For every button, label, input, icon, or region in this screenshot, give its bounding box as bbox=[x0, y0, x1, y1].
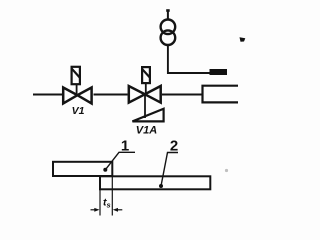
svg-text:V1: V1 bbox=[72, 105, 85, 117]
valve V1A stem bbox=[145, 83, 147, 94]
dimension arrow right bbox=[113, 208, 123, 212]
svg-text:2: 2 bbox=[170, 137, 178, 154]
solenoid actuator of V1 bbox=[72, 67, 80, 84]
valve V1 (body) bbox=[63, 88, 91, 104]
burner bbox=[203, 86, 239, 103]
wire: gas pipe inlet to V1 bbox=[33, 94, 62, 96]
ignition electrode (solid) bbox=[210, 69, 228, 75]
faint scan speck bbox=[225, 169, 228, 172]
leader dot of label 1 bbox=[103, 168, 107, 172]
wire: V1A outlet down bbox=[144, 95, 146, 119]
dimension arrow left bbox=[91, 208, 100, 212]
leader dot of label 2 bbox=[159, 184, 163, 188]
timing bar 1 (ignition) bbox=[53, 162, 112, 176]
extension line at bar1 end bbox=[111, 176, 113, 216]
extension line at bar2 start bbox=[99, 189, 101, 215]
valve V1A (three-way body) bbox=[129, 86, 161, 103]
solenoid actuator of V1A bbox=[142, 67, 150, 83]
ink blot artifact top right bbox=[240, 37, 246, 42]
leader line of label 1 bbox=[105, 152, 135, 170]
wire: transformer top lead bbox=[167, 10, 169, 20]
ramp symbol (slow opening) of V1A bbox=[132, 109, 163, 122]
ignition transformer T bbox=[161, 20, 176, 46]
svg-text:V1A: V1A bbox=[136, 125, 157, 137]
wire: pipe V1 to V1A bbox=[94, 94, 128, 96]
leader line of label 2 bbox=[161, 153, 178, 187]
wire: transformer to ignition electrode bbox=[168, 45, 210, 73]
wire: pipe V1A to burner bbox=[162, 94, 202, 96]
timing bar 2 (valve open) bbox=[100, 176, 210, 189]
valve V1 stem bbox=[76, 84, 78, 95]
terminal knob on transformer top lead bbox=[166, 9, 170, 12]
